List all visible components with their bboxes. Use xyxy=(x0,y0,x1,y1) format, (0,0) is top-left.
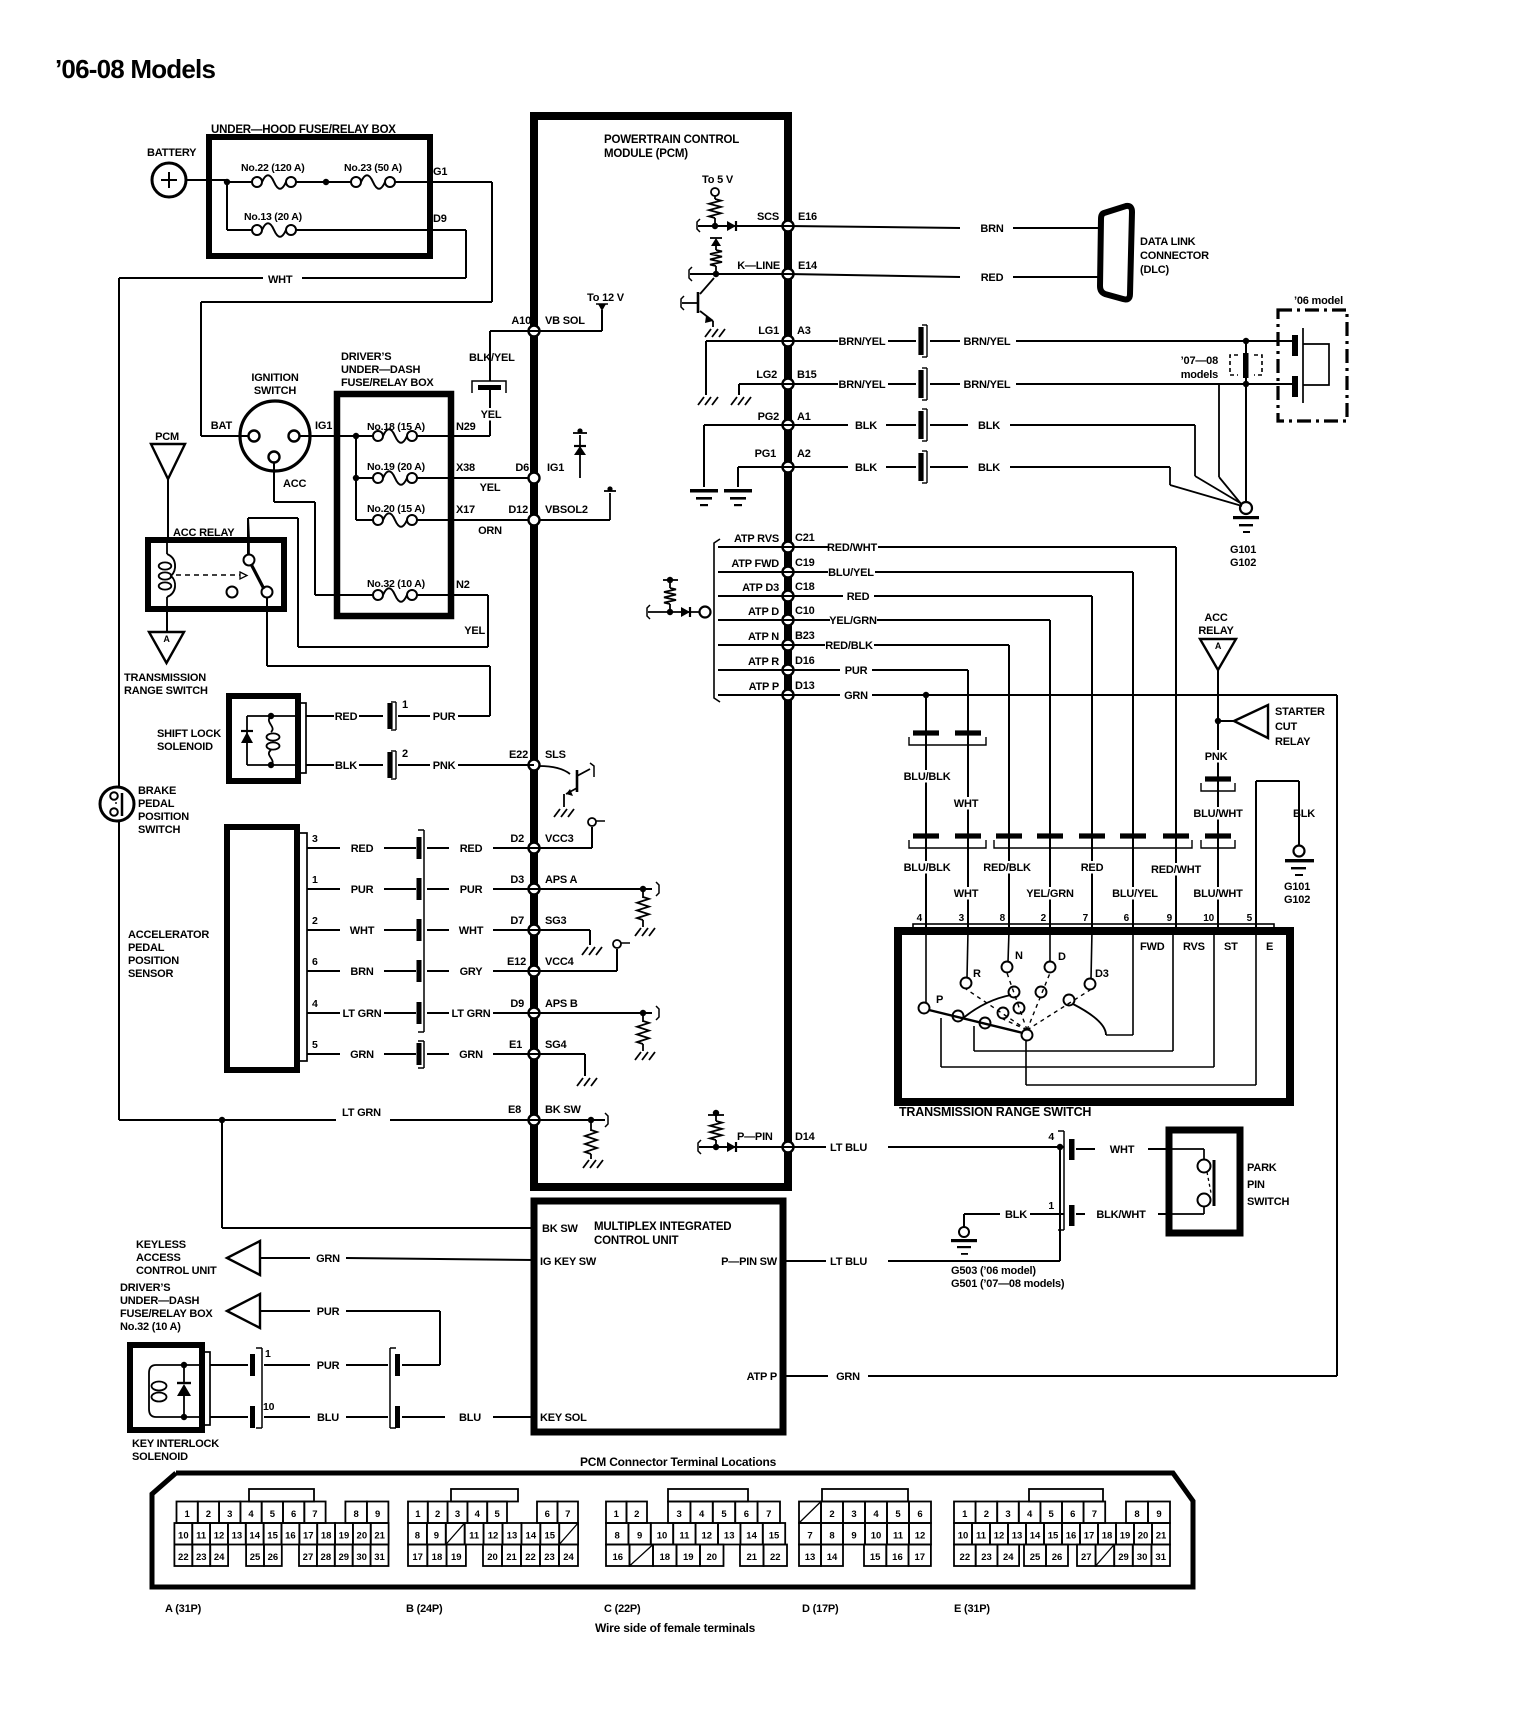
svg-text:ATP P: ATP P xyxy=(749,681,779,693)
svg-text:5: 5 xyxy=(895,1509,901,1520)
svg-text:2: 2 xyxy=(402,748,408,760)
svg-text:31: 31 xyxy=(1155,1552,1166,1563)
svg-text:6: 6 xyxy=(545,1509,550,1520)
svg-text:19: 19 xyxy=(683,1552,694,1563)
svg-text:20: 20 xyxy=(357,1531,368,1542)
svg-text:1: 1 xyxy=(402,699,408,711)
svg-text:CUT: CUT xyxy=(1275,721,1297,733)
svg-text:6: 6 xyxy=(312,956,318,968)
svg-text:No.23 (50 A): No.23 (50 A) xyxy=(344,162,402,174)
svg-text:PNK: PNK xyxy=(433,760,456,772)
svg-text:10: 10 xyxy=(871,1531,882,1542)
svg-text:6: 6 xyxy=(291,1509,296,1520)
svg-text:PNK: PNK xyxy=(1205,751,1228,763)
svg-text:2: 2 xyxy=(435,1509,440,1520)
svg-text:No.19 (20 A): No.19 (20 A) xyxy=(367,461,425,473)
svg-text:SWITCH: SWITCH xyxy=(138,824,180,836)
svg-text:17: 17 xyxy=(412,1552,423,1563)
svg-text:GRN: GRN xyxy=(459,1049,483,1061)
svg-text:WHT: WHT xyxy=(1110,1144,1135,1156)
svg-text:APS A: APS A xyxy=(545,874,577,886)
svg-text:5: 5 xyxy=(494,1509,500,1520)
svg-text:RANGE SWITCH: RANGE SWITCH xyxy=(124,685,208,697)
svg-text:19: 19 xyxy=(451,1552,462,1563)
svg-text:D9: D9 xyxy=(433,213,447,225)
svg-text:13: 13 xyxy=(1012,1531,1023,1542)
svg-text:23: 23 xyxy=(196,1552,207,1563)
svg-text:5: 5 xyxy=(1247,913,1253,924)
svg-text:14: 14 xyxy=(746,1531,757,1542)
svg-text:C10: C10 xyxy=(795,605,815,617)
svg-text:8: 8 xyxy=(1000,913,1006,924)
svg-text:13: 13 xyxy=(805,1552,816,1563)
svg-text:1: 1 xyxy=(1048,1200,1054,1212)
svg-text:PUR: PUR xyxy=(460,884,483,896)
svg-text:’07—08: ’07—08 xyxy=(1181,355,1218,367)
svg-text:18: 18 xyxy=(1102,1531,1113,1542)
svg-text:20: 20 xyxy=(706,1552,717,1563)
svg-text:7: 7 xyxy=(766,1509,771,1520)
svg-text:BRN/YEL: BRN/YEL xyxy=(964,336,1011,348)
svg-text:No.22 (120 A): No.22 (120 A) xyxy=(241,162,305,174)
svg-text:4: 4 xyxy=(917,913,923,924)
svg-text:19: 19 xyxy=(1120,1531,1131,1542)
svg-text:D: D xyxy=(1058,951,1066,963)
svg-text:PUR: PUR xyxy=(317,1360,340,1372)
svg-text:SWITCH: SWITCH xyxy=(1247,1196,1289,1208)
svg-text:13: 13 xyxy=(507,1531,518,1542)
svg-text:8: 8 xyxy=(354,1509,359,1520)
svg-text:4: 4 xyxy=(699,1509,705,1520)
svg-text:POSITION: POSITION xyxy=(128,955,179,967)
svg-text:GRY: GRY xyxy=(460,966,484,978)
svg-text:BRN: BRN xyxy=(350,966,373,978)
svg-text:24: 24 xyxy=(563,1552,574,1563)
svg-text:LT GRN: LT GRN xyxy=(452,1008,491,1020)
svg-text:2: 2 xyxy=(829,1509,834,1520)
svg-text:G501 (’07—08 models): G501 (’07—08 models) xyxy=(951,1278,1065,1290)
svg-text:14: 14 xyxy=(526,1531,537,1542)
svg-text:11: 11 xyxy=(679,1531,690,1542)
svg-text:A1: A1 xyxy=(797,411,811,423)
svg-text:2: 2 xyxy=(634,1509,639,1520)
svg-text:6: 6 xyxy=(917,1509,922,1520)
svg-text:15: 15 xyxy=(544,1531,555,1542)
svg-text:KEY INTERLOCK: KEY INTERLOCK xyxy=(132,1438,219,1450)
svg-text:X17: X17 xyxy=(456,504,475,516)
svg-text:7: 7 xyxy=(807,1531,812,1542)
svg-text:ACC: ACC xyxy=(1204,612,1227,624)
svg-text:G503 (’06 model): G503 (’06 model) xyxy=(951,1265,1036,1277)
svg-text:30: 30 xyxy=(356,1552,367,1563)
svg-text:C19: C19 xyxy=(795,557,815,569)
svg-text:A3: A3 xyxy=(797,325,811,337)
svg-text:7: 7 xyxy=(312,1509,317,1520)
svg-text:TRANSMISSION RANGE SWITCH: TRANSMISSION RANGE SWITCH xyxy=(899,1105,1091,1119)
svg-text:10: 10 xyxy=(958,1531,969,1542)
svg-text:BRN/YEL: BRN/YEL xyxy=(839,336,886,348)
svg-text:FWD: FWD xyxy=(1140,941,1165,953)
svg-text:4: 4 xyxy=(475,1509,481,1520)
svg-text:21: 21 xyxy=(1156,1531,1167,1542)
svg-text:LT GRN: LT GRN xyxy=(342,1107,381,1119)
svg-text:B (24P): B (24P) xyxy=(406,1603,443,1615)
svg-text:RED/WHT: RED/WHT xyxy=(827,542,877,554)
svg-text:10: 10 xyxy=(178,1531,189,1542)
svg-text:SG4: SG4 xyxy=(545,1039,567,1051)
svg-text:D14: D14 xyxy=(795,1131,816,1143)
svg-text:11: 11 xyxy=(893,1531,904,1542)
svg-text:7: 7 xyxy=(565,1509,570,1520)
svg-text:RED: RED xyxy=(335,711,358,723)
svg-text:VCC3: VCC3 xyxy=(545,833,574,845)
svg-text:RVS: RVS xyxy=(1183,941,1205,953)
svg-text:BLK: BLK xyxy=(855,420,877,432)
svg-text:19: 19 xyxy=(339,1531,350,1542)
svg-text:1: 1 xyxy=(614,1509,620,1520)
svg-text:BLK/YEL: BLK/YEL xyxy=(469,352,515,364)
svg-text:PUR: PUR xyxy=(433,711,456,723)
svg-text:8: 8 xyxy=(615,1531,620,1542)
svg-text:PG1: PG1 xyxy=(755,448,776,460)
svg-text:KEYLESS: KEYLESS xyxy=(136,1239,186,1251)
svg-text:ATP D3: ATP D3 xyxy=(742,582,779,594)
svg-text:ATP RVS: ATP RVS xyxy=(734,533,779,545)
svg-text:ORN: ORN xyxy=(478,525,502,537)
svg-text:23: 23 xyxy=(981,1552,992,1563)
svg-text:BLU/BLK: BLU/BLK xyxy=(904,771,951,783)
svg-text:3: 3 xyxy=(1005,1509,1010,1520)
svg-text:BLK: BLK xyxy=(335,760,357,772)
svg-text:BLK: BLK xyxy=(1293,808,1315,820)
svg-text:STARTER: STARTER xyxy=(1275,706,1325,718)
svg-text:IG1: IG1 xyxy=(315,420,332,432)
svg-text:4: 4 xyxy=(1048,1131,1054,1143)
svg-text:ACCESS: ACCESS xyxy=(136,1252,181,1264)
svg-text:28: 28 xyxy=(321,1552,332,1563)
svg-text:16: 16 xyxy=(612,1552,623,1563)
svg-text:DATA LINK: DATA LINK xyxy=(1140,236,1196,248)
svg-text:D16: D16 xyxy=(795,655,815,667)
svg-text:No.32 (10 A): No.32 (10 A) xyxy=(120,1321,181,1333)
svg-text:SWITCH: SWITCH xyxy=(254,385,296,397)
svg-text:D6: D6 xyxy=(515,462,529,474)
svg-text:RED: RED xyxy=(1081,862,1104,874)
svg-text:R: R xyxy=(973,968,981,980)
svg-text:D7: D7 xyxy=(510,915,524,927)
svg-text:11: 11 xyxy=(196,1531,207,1542)
svg-text:9: 9 xyxy=(851,1531,856,1542)
svg-text:YEL: YEL xyxy=(480,482,501,494)
svg-text:14: 14 xyxy=(1030,1531,1041,1542)
svg-text:DRIVER’S: DRIVER’S xyxy=(341,351,391,363)
svg-text:14: 14 xyxy=(249,1531,260,1542)
svg-text:CONTROL UNIT: CONTROL UNIT xyxy=(136,1265,217,1277)
svg-text:G101: G101 xyxy=(1230,544,1256,556)
svg-text:15: 15 xyxy=(1048,1531,1059,1542)
svg-text:5: 5 xyxy=(1049,1509,1055,1520)
svg-text:E22: E22 xyxy=(509,749,528,761)
svg-text:ATP R: ATP R xyxy=(748,656,779,668)
svg-text:RED/BLK: RED/BLK xyxy=(825,640,873,652)
svg-text:17: 17 xyxy=(1084,1531,1095,1542)
svg-text:8: 8 xyxy=(1134,1509,1139,1520)
svg-text:P: P xyxy=(936,994,943,1006)
svg-text:’06 model: ’06 model xyxy=(1294,295,1343,307)
svg-text:BRAKE: BRAKE xyxy=(138,785,176,797)
svg-text:9: 9 xyxy=(375,1509,380,1520)
svg-text:15: 15 xyxy=(267,1531,278,1542)
svg-text:E (31P): E (31P) xyxy=(954,1603,990,1615)
svg-text:22: 22 xyxy=(960,1552,971,1563)
svg-text:’06-08 Models: ’06-08 Models xyxy=(55,54,215,84)
svg-text:YEL: YEL xyxy=(481,409,502,421)
svg-text:D2: D2 xyxy=(510,833,524,845)
svg-text:1: 1 xyxy=(265,1348,271,1360)
svg-text:14: 14 xyxy=(827,1552,838,1563)
svg-text:LG2: LG2 xyxy=(756,369,777,381)
svg-text:BRN: BRN xyxy=(980,223,1003,235)
svg-text:MULTIPLEX INTEGRATED: MULTIPLEX INTEGRATED xyxy=(594,1221,731,1233)
svg-text:K—LINE: K—LINE xyxy=(737,260,780,272)
svg-text:17: 17 xyxy=(914,1552,925,1563)
svg-text:1: 1 xyxy=(962,1509,968,1520)
svg-text:21: 21 xyxy=(506,1552,517,1563)
svg-text:ATP N: ATP N xyxy=(748,631,779,643)
svg-text:LT BLU: LT BLU xyxy=(830,1142,867,1154)
svg-text:6: 6 xyxy=(1124,913,1130,924)
svg-text:10: 10 xyxy=(1203,913,1214,924)
svg-text:16: 16 xyxy=(285,1531,296,1542)
svg-text:E12: E12 xyxy=(507,956,526,968)
svg-text:20: 20 xyxy=(487,1552,498,1563)
svg-text:4: 4 xyxy=(873,1509,879,1520)
svg-text:GRN: GRN xyxy=(844,690,868,702)
svg-text:PEDAL: PEDAL xyxy=(138,798,175,810)
svg-text:VB SOL: VB SOL xyxy=(545,315,585,327)
svg-text:17: 17 xyxy=(303,1531,314,1542)
svg-text:7: 7 xyxy=(1092,1509,1097,1520)
svg-text:5: 5 xyxy=(312,1039,318,1051)
svg-text:POWERTRAIN CONTROL: POWERTRAIN CONTROL xyxy=(604,134,739,146)
svg-text:E16: E16 xyxy=(798,211,817,223)
svg-text:13: 13 xyxy=(232,1531,243,1542)
svg-text:ATP FWD: ATP FWD xyxy=(731,558,779,570)
svg-text:5: 5 xyxy=(270,1509,276,1520)
svg-text:A: A xyxy=(1215,641,1222,651)
svg-text:BLK: BLK xyxy=(855,462,877,474)
svg-text:ACC: ACC xyxy=(283,478,306,490)
svg-text:RED: RED xyxy=(981,272,1004,284)
svg-text:31: 31 xyxy=(374,1552,385,1563)
svg-text:22: 22 xyxy=(770,1552,781,1563)
svg-text:12: 12 xyxy=(702,1531,713,1542)
svg-text:D3: D3 xyxy=(1095,968,1109,980)
svg-text:4: 4 xyxy=(1027,1509,1033,1520)
svg-text:G1: G1 xyxy=(433,166,447,178)
svg-text:UNDER—DASH: UNDER—DASH xyxy=(341,364,421,376)
svg-text:11: 11 xyxy=(976,1531,987,1542)
svg-text:PEDAL: PEDAL xyxy=(128,942,165,954)
svg-text:VCC4: VCC4 xyxy=(545,956,575,968)
svg-text:21: 21 xyxy=(374,1531,385,1542)
svg-text:15: 15 xyxy=(769,1531,780,1542)
svg-text:1: 1 xyxy=(185,1509,191,1520)
svg-text:18: 18 xyxy=(321,1531,332,1542)
svg-text:RELAY: RELAY xyxy=(1198,625,1234,637)
svg-text:models: models xyxy=(1181,369,1218,381)
svg-text:SHIFT LOCK: SHIFT LOCK xyxy=(157,728,221,740)
svg-text:9: 9 xyxy=(637,1531,642,1542)
svg-text:BK SW: BK SW xyxy=(545,1104,581,1116)
svg-text:POSITION: POSITION xyxy=(138,811,189,823)
svg-text:PIN: PIN xyxy=(1247,1179,1265,1191)
svg-text:A2: A2 xyxy=(797,448,811,460)
svg-text:BLU/WHT: BLU/WHT xyxy=(1193,888,1243,900)
svg-text:3: 3 xyxy=(227,1509,232,1520)
svg-text:24: 24 xyxy=(214,1552,225,1563)
svg-text:BATTERY: BATTERY xyxy=(147,147,197,159)
svg-text:22: 22 xyxy=(525,1552,536,1563)
svg-text:B23: B23 xyxy=(795,630,815,642)
svg-text:PCM Connector Terminal Locatio: PCM Connector Terminal Locations xyxy=(580,1455,777,1469)
svg-text:WHT: WHT xyxy=(459,925,484,937)
svg-text:SLS: SLS xyxy=(545,749,566,761)
svg-text:12: 12 xyxy=(214,1531,225,1542)
svg-text:CONTROL UNIT: CONTROL UNIT xyxy=(594,1235,678,1247)
svg-text:E1: E1 xyxy=(509,1039,522,1051)
svg-text:5: 5 xyxy=(721,1509,727,1520)
svg-text:SOLENOID: SOLENOID xyxy=(157,741,213,753)
svg-text:BLU: BLU xyxy=(459,1412,481,1424)
svg-text:D3: D3 xyxy=(510,874,524,886)
svg-text:3: 3 xyxy=(455,1509,460,1520)
svg-text:WHT: WHT xyxy=(268,274,293,286)
svg-text:22: 22 xyxy=(178,1552,189,1563)
svg-text:18: 18 xyxy=(432,1552,443,1563)
svg-text:C18: C18 xyxy=(795,581,815,593)
svg-text:G101: G101 xyxy=(1284,881,1310,893)
svg-text:8: 8 xyxy=(829,1531,834,1542)
svg-text:BLK/WHT: BLK/WHT xyxy=(1096,1209,1146,1221)
svg-text:25: 25 xyxy=(250,1552,261,1563)
svg-text:9: 9 xyxy=(434,1531,439,1542)
svg-text:16: 16 xyxy=(1066,1531,1077,1542)
svg-text:SCS: SCS xyxy=(757,211,779,223)
svg-text:D13: D13 xyxy=(795,680,815,692)
svg-text:12: 12 xyxy=(994,1531,1005,1542)
svg-text:10: 10 xyxy=(657,1531,668,1542)
svg-text:N: N xyxy=(1015,950,1023,962)
svg-text:11: 11 xyxy=(469,1531,480,1542)
svg-text:ATP P: ATP P xyxy=(747,1371,777,1383)
svg-text:27: 27 xyxy=(1081,1552,1092,1563)
svg-text:BLK: BLK xyxy=(1005,1209,1027,1221)
svg-text:2: 2 xyxy=(1041,913,1047,924)
svg-text:PCM: PCM xyxy=(155,431,179,443)
svg-text:BLU/YEL: BLU/YEL xyxy=(1112,888,1158,900)
svg-text:30: 30 xyxy=(1137,1552,1148,1563)
svg-text:DRIVER’S: DRIVER’S xyxy=(120,1282,170,1294)
svg-text:ACCELERATOR: ACCELERATOR xyxy=(128,929,209,941)
svg-text:SENSOR: SENSOR xyxy=(128,968,174,980)
svg-text:3: 3 xyxy=(851,1509,856,1520)
svg-text:APS B: APS B xyxy=(545,998,578,1010)
svg-text:2: 2 xyxy=(984,1509,989,1520)
svg-text:BK SW: BK SW xyxy=(542,1223,578,1235)
svg-text:TRANSMISSION: TRANSMISSION xyxy=(124,672,206,684)
svg-text:RED/WHT: RED/WHT xyxy=(1151,864,1201,876)
svg-text:A (31P): A (31P) xyxy=(165,1603,202,1615)
svg-text:PUR: PUR xyxy=(351,884,374,896)
svg-text:12: 12 xyxy=(915,1531,926,1542)
svg-text:RED: RED xyxy=(460,843,483,855)
svg-text:4: 4 xyxy=(312,998,318,1010)
svg-text:A10: A10 xyxy=(511,315,531,327)
svg-text:P—PIN: P—PIN xyxy=(737,1131,773,1143)
svg-text:No.13 (20 A): No.13 (20 A) xyxy=(244,211,302,223)
svg-text:D9: D9 xyxy=(510,998,524,1010)
svg-text:1: 1 xyxy=(312,874,318,886)
svg-text:PUR: PUR xyxy=(317,1306,340,1318)
svg-text:3: 3 xyxy=(677,1509,682,1520)
svg-text:BLU/WHT: BLU/WHT xyxy=(1193,808,1243,820)
svg-text:RELAY: RELAY xyxy=(1275,736,1311,748)
svg-text:2: 2 xyxy=(312,915,318,927)
svg-text:G102: G102 xyxy=(1230,557,1256,569)
svg-text:PG2: PG2 xyxy=(758,411,779,423)
svg-text:GRN: GRN xyxy=(836,1371,860,1383)
svg-text:18: 18 xyxy=(659,1552,670,1563)
svg-text:ATP D: ATP D xyxy=(748,606,779,618)
svg-text:To 12 V: To 12 V xyxy=(587,292,625,304)
svg-text:6: 6 xyxy=(1070,1509,1075,1520)
svg-text:A: A xyxy=(163,634,170,644)
svg-text:No.20 (15 A): No.20 (15 A) xyxy=(367,503,425,515)
svg-text:4: 4 xyxy=(248,1509,254,1520)
svg-text:E8: E8 xyxy=(508,1104,521,1116)
svg-text:VBSOL2: VBSOL2 xyxy=(545,504,588,516)
svg-text:BAT: BAT xyxy=(211,420,233,432)
svg-text:29: 29 xyxy=(338,1552,349,1563)
svg-text:1: 1 xyxy=(415,1509,421,1520)
svg-text:3: 3 xyxy=(312,833,318,845)
svg-text:YEL/GRN: YEL/GRN xyxy=(1026,888,1074,900)
svg-text:GRN: GRN xyxy=(316,1253,340,1265)
svg-text:26: 26 xyxy=(268,1552,279,1563)
svg-text:23: 23 xyxy=(544,1552,555,1563)
svg-text:15: 15 xyxy=(870,1552,881,1563)
svg-text:X38: X38 xyxy=(456,462,475,474)
svg-text:RED: RED xyxy=(351,843,374,855)
svg-text:12: 12 xyxy=(488,1531,499,1542)
svg-text:C (22P): C (22P) xyxy=(604,1603,641,1615)
svg-text:10: 10 xyxy=(263,1401,275,1413)
svg-text:3: 3 xyxy=(959,913,965,924)
svg-text:To 5 V: To 5 V xyxy=(702,174,734,186)
svg-text:G102: G102 xyxy=(1284,894,1310,906)
svg-text:29: 29 xyxy=(1118,1552,1129,1563)
svg-text:BLU/BLK: BLU/BLK xyxy=(904,862,951,874)
svg-text:D (17P): D (17P) xyxy=(802,1603,839,1615)
svg-text:13: 13 xyxy=(724,1531,735,1542)
svg-text:BLK: BLK xyxy=(978,420,1000,432)
svg-text:PUR: PUR xyxy=(845,665,868,677)
svg-text:FUSE/RELAY BOX: FUSE/RELAY BOX xyxy=(120,1308,213,1320)
svg-text:BLU/YEL: BLU/YEL xyxy=(828,567,874,579)
svg-text:BLK: BLK xyxy=(978,462,1000,474)
svg-text:25: 25 xyxy=(1030,1552,1041,1563)
